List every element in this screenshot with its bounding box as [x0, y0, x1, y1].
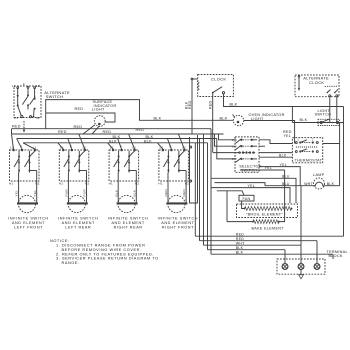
wire mid vertical 4	[207, 143, 209, 250]
svg-text:RED: RED	[58, 130, 67, 134]
label YEL thermostat feed	[284, 134, 292, 138]
svg-text:AND ELEMENT: AND ELEMENT	[62, 221, 95, 225]
svg-text:AND ELEMENT: AND ELEMENT	[111, 221, 144, 225]
svg-text:RED: RED	[236, 232, 244, 236]
svg-text:RED: RED	[182, 189, 186, 197]
light switch	[292, 109, 343, 126]
svg-text:YEL: YEL	[15, 190, 19, 197]
svg-text:BLK: BLK	[230, 103, 238, 107]
svg-text:BLK: BLK	[146, 135, 154, 139]
wire wht to terminal y245.2	[204, 244, 302, 246]
wire selector bottom yel	[259, 167, 300, 186]
svg-text:AND ELEMENT: AND ELEMENT	[161, 221, 194, 225]
svg-text:RANGE.: RANGE.	[62, 260, 80, 265]
wire selector to thermostat row2	[259, 152, 292, 154]
svg-text:H2: H2	[185, 181, 189, 185]
wire blu upper	[211, 178, 296, 203]
wire clock center drop	[212, 94, 214, 153]
wire bus B red	[12, 129, 224, 134]
svg-text:LEFT REAR: LEFT REAR	[65, 226, 91, 230]
svg-text:YEL: YEL	[248, 184, 256, 188]
label YEL fan	[248, 184, 256, 188]
alternate switch	[12, 82, 41, 120]
wire red branch to surface light	[46, 113, 115, 122]
wire bus A red	[12, 128, 212, 130]
wire oven light to thermostat	[244, 121, 295, 144]
surface element right front	[166, 195, 187, 212]
labels H1 H2 left front	[9, 181, 40, 185]
svg-text:PUR: PUR	[65, 189, 69, 197]
svg-text:5: 5	[232, 157, 234, 161]
label ALTERNATE SWITCH	[44, 90, 70, 99]
svg-text:LIGHT: LIGHT	[92, 107, 105, 111]
svg-text:INFINITE SWITCH: INFINITE SWITCH	[158, 217, 198, 221]
label RED oven light	[283, 130, 292, 134]
svg-text:RED: RED	[236, 237, 244, 241]
svg-text:BLU: BLU	[282, 175, 290, 179]
label BLK near oven light	[220, 116, 228, 120]
wire blk to terminal y249.7	[208, 249, 286, 251]
svg-text:BLK: BLK	[113, 135, 121, 139]
svg-text:INFINITE SWITCH: INFINITE SWITCH	[58, 217, 98, 221]
wire light switch feed	[291, 107, 293, 123]
wire red to terminal y240.7	[200, 240, 318, 242]
label infinite switch left front	[8, 217, 48, 230]
svg-text:CLOCK: CLOCK	[309, 80, 324, 85]
bake element	[227, 170, 285, 230]
wire alt clock drop 1	[329, 97, 331, 123]
wire fan feed	[217, 191, 244, 195]
ground symbol	[299, 269, 304, 278]
svg-text:RED: RED	[136, 128, 145, 132]
svg-text:RED: RED	[283, 130, 292, 134]
wire red run to clock area	[46, 100, 234, 121]
label RED bus B right	[103, 130, 112, 134]
svg-text:CLOCK: CLOCK	[211, 77, 226, 82]
wire bus A drop	[45, 113, 47, 129]
wire alternate switch H1 arrow	[23, 121, 25, 133]
label YEL lamp run	[265, 166, 273, 170]
svg-text:SWITCH: SWITCH	[315, 113, 332, 117]
svg-text:RED: RED	[75, 107, 84, 111]
infinite switch left rear	[58, 134, 89, 181]
selector switch	[232, 137, 262, 173]
label RED clock drop	[188, 101, 192, 109]
wire mid vertical 3	[203, 134, 205, 245]
svg-text:LAMP: LAMP	[313, 173, 325, 177]
wire blu mid	[215, 183, 266, 186]
svg-text:L2: L2	[36, 84, 40, 88]
svg-text:BLK: BLK	[114, 189, 118, 196]
svg-text:RED: RED	[209, 101, 213, 109]
label BLK left of thermostat	[279, 153, 287, 157]
svg-text:AND ELEMENT: AND ELEMENT	[12, 221, 45, 225]
label BLK stack	[236, 246, 244, 250]
wire blk corner	[332, 254, 334, 259]
label BLK bus D	[109, 139, 152, 143]
thermostat	[292, 138, 322, 163]
wire blk thermostat	[259, 156, 292, 158]
svg-text:H2: H2	[36, 116, 40, 120]
terminal block	[277, 259, 325, 274]
wire terminal drop mid	[300, 245, 302, 263]
label RED upper	[75, 107, 84, 111]
svg-text:BLU: BLU	[282, 182, 290, 186]
label BLK clock output	[230, 103, 238, 107]
svg-text:BLK: BLK	[154, 117, 162, 121]
infinite switch right rear	[108, 134, 139, 181]
svg-text:WHT: WHT	[236, 241, 245, 245]
svg-text:H1: H1	[9, 181, 13, 185]
svg-text:BLK: BLK	[236, 246, 244, 250]
svg-text:H1: H1	[59, 181, 63, 185]
svg-text:H2: H2	[35, 181, 39, 185]
surface element left front	[17, 195, 38, 212]
svg-text:2: 2	[232, 138, 234, 142]
surface element left rear	[67, 195, 88, 212]
svg-text:BLK: BLK	[109, 139, 117, 143]
svg-text:BLK: BLK	[300, 118, 308, 122]
svg-text:RED: RED	[74, 125, 83, 129]
wire yel lamp run	[240, 169, 285, 171]
svg-text:YEL: YEL	[280, 163, 288, 167]
svg-text:YEL: YEL	[265, 166, 273, 170]
svg-text:H1: H1	[14, 116, 18, 120]
wire mid vertical 2	[199, 139, 201, 241]
svg-text:BLK: BLK	[327, 182, 335, 186]
label YEL selector	[280, 163, 288, 167]
svg-text:RIGHT REAR: RIGHT REAR	[114, 226, 143, 230]
label RED stack	[236, 237, 244, 241]
svg-text:INFINITE SWITCH: INFINITE SWITCH	[108, 217, 148, 221]
wire thermostat to spine	[323, 143, 340, 145]
lamp	[313, 173, 325, 189]
svg-text:H1: H1	[109, 181, 113, 185]
oven indicator light	[233, 113, 285, 126]
wire wht drop to terminal	[300, 186, 302, 246]
infinite switch right front	[157, 134, 188, 181]
label RED bus A right	[136, 128, 145, 132]
labels H1 H2 right rear	[109, 181, 140, 185]
svg-text:3: 3	[232, 144, 234, 148]
svg-text:YEL: YEL	[284, 134, 292, 138]
wire light switch spine	[339, 123, 341, 186]
wire element leads left front	[15, 181, 37, 203]
svg-text:RED: RED	[188, 101, 192, 109]
surface element right rear	[117, 195, 138, 212]
wire mid vertical 5	[210, 129, 212, 255]
wire terminal drop left	[284, 250, 286, 264]
label infinite switch left rear	[58, 217, 98, 230]
infinite switch left front	[10, 134, 40, 181]
label BLK stack	[236, 250, 244, 254]
label RED stack	[236, 232, 244, 236]
wire lamp left lead	[265, 185, 313, 187]
wire clock right output	[224, 94, 344, 107]
wire alt clock drop 2	[336, 97, 338, 123]
svg-text:RIGHT FRONT: RIGHT FRONT	[162, 226, 194, 230]
wire clock left drop	[191, 80, 193, 134]
label infinite switch right front	[158, 217, 198, 230]
wire selector stub row2b	[259, 145, 265, 147]
wire fan to broil	[242, 201, 245, 209]
wire terminal drop right	[316, 241, 318, 264]
wire lamp right lead	[325, 182, 339, 186]
label BLK surface line	[154, 117, 162, 121]
svg-text:SWITCH: SWITCH	[46, 94, 64, 99]
wire blk to terminal y254.2	[211, 253, 333, 255]
label RED clock center drop	[209, 101, 213, 109]
label RED bus A	[74, 125, 83, 129]
wire loop left of selector	[190, 135, 198, 203]
wire element leads right rear	[114, 181, 136, 203]
label WHT lamp	[304, 182, 313, 186]
fan box	[239, 195, 254, 201]
wire element leads left rear	[65, 181, 87, 203]
clock	[191, 75, 233, 97]
wire red to terminal y236.2	[195, 235, 343, 237]
svg-text:BLK: BLK	[132, 189, 136, 196]
svg-text:BLOCK: BLOCK	[329, 254, 343, 258]
wire selector feed row3	[213, 152, 238, 154]
wire bus D blk	[23, 142, 208, 144]
svg-text:FAN: FAN	[243, 197, 251, 201]
svg-text:BAKE ELEMENT: BAKE ELEMENT	[252, 226, 285, 230]
svg-text:P: P	[23, 82, 25, 86]
wire selector feed row2	[215, 134, 237, 146]
label BLK bus C right	[146, 135, 154, 139]
svg-text:YEL: YEL	[33, 190, 37, 197]
svg-text:BLK: BLK	[236, 250, 244, 254]
broil element	[237, 204, 298, 218]
label TERMINAL BLOCK	[327, 250, 348, 258]
label BLK bus C	[113, 135, 121, 139]
wire right spine	[343, 107, 345, 237]
svg-text:INFINITE SWITCH: INFINITE SWITCH	[8, 217, 48, 221]
label RED bus B	[58, 130, 67, 134]
wire selector to thermostat row1	[259, 140, 292, 144]
labels H1 H2 left rear	[59, 181, 90, 185]
svg-text:BLK: BLK	[220, 116, 228, 120]
label infinite switch right rear	[108, 217, 148, 230]
svg-text:RED: RED	[12, 124, 21, 128]
notice text	[50, 238, 159, 265]
svg-text:RED: RED	[103, 130, 112, 134]
label BLU lamp	[282, 182, 290, 186]
svg-text:H2: H2	[135, 181, 139, 185]
wire selector feed row1	[219, 134, 237, 140]
svg-text:H2: H2	[85, 181, 89, 185]
svg-text:PUR: PUR	[83, 189, 87, 197]
label RED bus A left	[12, 124, 21, 128]
svg-text:RED: RED	[164, 189, 168, 197]
label BLU upper	[282, 175, 290, 179]
wire mid vertical 1	[194, 143, 196, 236]
svg-text:"BROIL ELEMENT": "BROIL ELEMENT"	[246, 212, 283, 216]
svg-text:LEFT FRONT: LEFT FRONT	[14, 226, 43, 230]
surface indicator light	[83, 100, 116, 134]
labels H1 H2 right front	[158, 181, 189, 185]
wire bus C blk	[17, 138, 217, 140]
svg-text:THERMOSTAT: THERMOSTAT	[295, 159, 323, 163]
svg-text:L1: L1	[12, 84, 16, 88]
label BLK light switch	[300, 118, 308, 122]
svg-text:H1: H1	[158, 181, 162, 185]
svg-text:WHT: WHT	[304, 182, 313, 186]
alternate clock	[295, 75, 339, 97]
wire selector feed row4	[217, 139, 237, 159]
svg-text:BLK: BLK	[144, 139, 152, 143]
label BLK clock drop	[185, 101, 189, 109]
label WHT stack	[236, 241, 245, 245]
wire yel broil	[211, 188, 290, 203]
wire element leads right front	[164, 181, 186, 203]
